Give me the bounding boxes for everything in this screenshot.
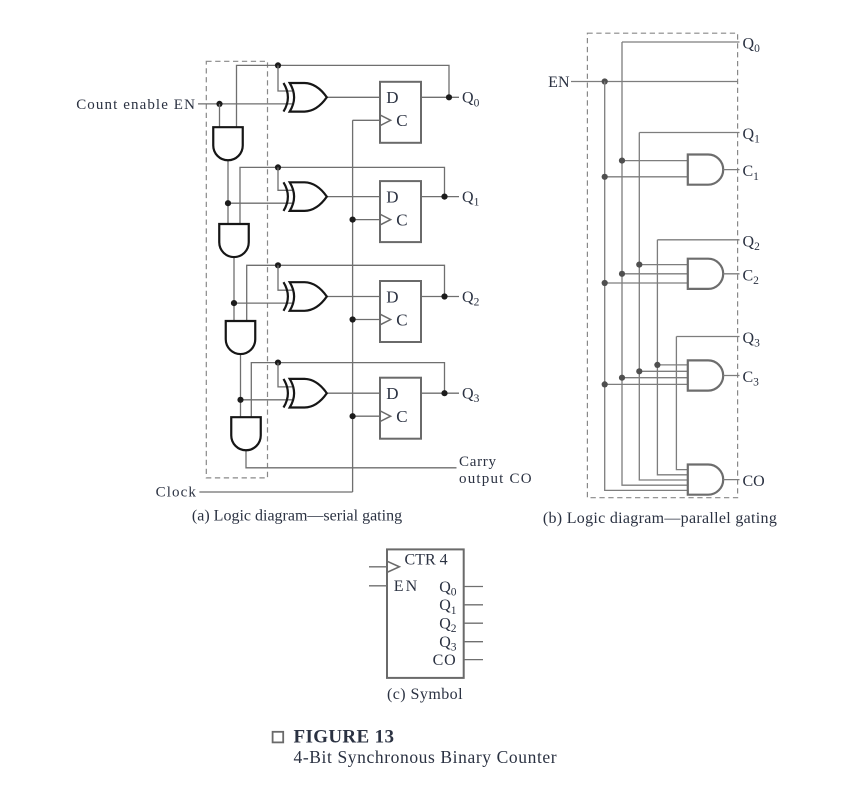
junction: feedback branch to XOR4	[275, 360, 281, 366]
junction: EN branch node	[216, 101, 222, 107]
junction: AND2 output node	[231, 300, 237, 306]
junction: feedback branch to XOR1	[275, 62, 281, 68]
junction: C3 input tap	[636, 368, 642, 374]
svg-text:D: D	[386, 88, 398, 107]
svg-text:FIGURE 13: FIGURE 13	[294, 727, 395, 748]
svg-text:CO: CO	[743, 473, 765, 490]
wire: input to C2 from bus	[639, 264, 689, 266]
junction: Q0 output node	[446, 94, 452, 100]
svg-text:Q2: Q2	[462, 289, 480, 309]
wire: Q1 output (c)	[464, 604, 483, 606]
wire: Q1 output	[421, 196, 459, 198]
wire: XOR2 output to FF2 D	[327, 196, 380, 198]
wire: Clock input horizontal	[199, 491, 352, 493]
dashed box (a) serial-gating enclosure	[206, 61, 267, 478]
svg-text:Q1: Q1	[439, 597, 457, 617]
wire: C1 output	[723, 169, 739, 171]
wire: XOR1 output to FF1 D	[327, 96, 380, 98]
wire: Q0 output	[421, 96, 459, 98]
svg-text:Q2: Q2	[439, 616, 457, 636]
D flip-flop FF4	[380, 378, 421, 439]
D flip-flop FF1	[380, 82, 421, 143]
svg-text:D: D	[386, 187, 398, 206]
junction: C1 input tap	[619, 158, 625, 164]
wire: branch down to XOR2 top input	[278, 167, 292, 190]
wire: EN input (b)	[571, 81, 738, 83]
and gate G2 (serial)	[219, 224, 249, 257]
svg-text:Q3: Q3	[743, 330, 761, 350]
svg-text:Carry: Carry	[459, 454, 497, 470]
wire: Q1 feedback to AND2 right input	[240, 167, 445, 225]
junction: AND3 output node	[237, 397, 243, 403]
dashed box (b) parallel-gating enclosure	[587, 33, 737, 498]
junction: Q2 output node	[441, 293, 447, 299]
svg-text:4-Bit Synchronous Binary Count: 4-Bit Synchronous Binary Counter	[294, 747, 558, 767]
svg-text:C1: C1	[743, 163, 760, 183]
D flip-flop FF2	[380, 181, 421, 242]
wire: C2 output	[723, 273, 739, 275]
svg-text:(a) Logic diagram—serial gatin: (a) Logic diagram—serial gating	[192, 507, 402, 524]
junction: feedback branch to XOR3	[275, 262, 281, 268]
svg-text:Q0: Q0	[743, 36, 761, 56]
wire: Q3 output (b)	[676, 336, 739, 338]
and gate C2	[688, 259, 723, 289]
wire: clock vertical	[352, 120, 354, 492]
wire: input to C2 from bus	[605, 282, 689, 284]
wire: Q2 output	[421, 296, 459, 298]
svg-text:EN: EN	[548, 74, 570, 91]
wire: input to C1 from bus	[605, 176, 689, 178]
svg-text:C: C	[396, 111, 407, 130]
wire: Q0 output (b)	[622, 41, 740, 43]
wire: Q3 output (c)	[464, 641, 483, 643]
wire: input to C2 from bus	[622, 273, 689, 275]
wire: CO output	[723, 479, 739, 481]
wire: AND2 output chain	[233, 257, 235, 321]
xor gate X2	[284, 182, 327, 211]
svg-text:Q1: Q1	[462, 189, 480, 209]
junction: C2 input tap	[602, 280, 608, 286]
wire: input to C3 from bus	[622, 377, 689, 379]
wire: Q3 feedback to AND4 right input	[251, 363, 444, 419]
svg-text:D: D	[386, 287, 398, 306]
svg-text:Q3: Q3	[462, 386, 480, 406]
wire: EN down to AND1 left input	[219, 104, 221, 128]
wire: chain to XOR4 lower input	[241, 399, 293, 401]
svg-text:CTR 4: CTR 4	[405, 552, 448, 569]
wire: AND4 output to carry	[246, 450, 457, 468]
wire: clock feed FF3 C	[353, 319, 380, 321]
wire: Q0 feedback to AND1 right input	[237, 65, 450, 128]
counter symbol box U1	[387, 549, 464, 678]
clock triangle (c)	[387, 561, 399, 572]
wire: Q2 output (b)	[657, 239, 739, 241]
svg-text:C: C	[396, 210, 407, 229]
and gate C1	[688, 155, 723, 185]
svg-text:Q1: Q1	[743, 126, 761, 146]
junction: C3 input tap	[654, 362, 660, 368]
D flip-flop FF3	[380, 281, 421, 342]
wire: Q2 vertical bus	[657, 240, 688, 475]
svg-text:Q3: Q3	[439, 634, 457, 654]
junction: clock node FF4	[350, 413, 356, 419]
wire: EN input to XOR1	[198, 103, 292, 105]
wire: input to C1 from bus	[622, 160, 689, 162]
wire: clock feed FF4 C	[353, 415, 380, 417]
svg-text:C: C	[396, 407, 407, 426]
svg-text:Q0: Q0	[462, 90, 480, 110]
svg-text:(b) Logic diagram—parallel gat: (b) Logic diagram—parallel gating	[543, 510, 777, 527]
svg-text:Clock: Clock	[156, 484, 197, 500]
wire: Q3 vertical bus	[676, 337, 688, 470]
svg-text:CO: CO	[433, 652, 457, 669]
wire: clock input (c)	[369, 566, 387, 568]
wire: C3 output	[723, 375, 739, 377]
wire: input to C3 from bus	[657, 364, 688, 366]
wire: clock feed FF1 C	[353, 119, 380, 121]
junction: C2 input tap	[619, 271, 625, 277]
wire: EN vertical bus	[605, 82, 689, 491]
svg-text:EN: EN	[394, 578, 420, 595]
and gate G1 (serial)	[213, 127, 243, 160]
and gate G3 (serial)	[226, 321, 256, 354]
wire: Q1 output (b)	[639, 132, 739, 134]
and gate C3	[688, 360, 723, 390]
junction: C3 input tap	[602, 381, 608, 387]
junction: clock node FF2	[350, 217, 356, 223]
xor gate X3	[284, 282, 327, 311]
wire: Q3 output	[421, 392, 459, 394]
wire: branch down to XOR3 top input	[278, 265, 292, 290]
svg-text:C2: C2	[743, 267, 760, 287]
junction: C3 input tap	[619, 375, 625, 381]
junction: EN node (b)	[602, 78, 608, 84]
xor gate X4	[284, 379, 327, 408]
wire: clock feed FF2 C	[353, 219, 380, 221]
figure bullet square	[273, 732, 284, 743]
wire: input to C3 from bus	[605, 383, 689, 385]
xor gate X1	[284, 83, 327, 112]
wire: Q0 vertical bus	[622, 42, 689, 485]
svg-text:C: C	[396, 310, 407, 329]
wire: chain to XOR2 lower input	[228, 202, 292, 204]
svg-text:C3: C3	[743, 369, 760, 389]
junction: C2 input tap	[636, 262, 642, 268]
wire: Q1 vertical bus	[639, 133, 689, 481]
wire: chain to XOR3 lower input	[234, 302, 292, 304]
junction: feedback branch to XOR2	[275, 164, 281, 170]
wire: Q2 output (c)	[464, 622, 483, 624]
svg-text:(c) Symbol: (c) Symbol	[387, 686, 463, 703]
junction: AND1 output node	[225, 200, 231, 206]
svg-text:Q2: Q2	[743, 233, 761, 253]
wire: EN input (c)	[369, 585, 387, 587]
wire: Q2 feedback to AND3 right input	[247, 265, 445, 322]
wire: input to C3 from bus	[639, 370, 689, 372]
wire: AND3 output chain	[240, 354, 242, 417]
wire: Q0 output (c)	[464, 586, 483, 588]
junction: Q3 output node	[441, 390, 447, 396]
svg-text:Q0: Q0	[439, 579, 457, 599]
wire: XOR3 output to FF3 D	[327, 296, 380, 298]
junction: Q1 output node	[441, 194, 447, 200]
and gate CO	[688, 465, 723, 495]
svg-text:Count enable EN: Count enable EN	[76, 97, 196, 113]
wire: CO output (c)	[464, 659, 483, 661]
wire: XOR4 output to FF4 D	[327, 392, 380, 394]
svg-text:D: D	[386, 384, 398, 403]
junction: C1 input tap	[602, 174, 608, 180]
svg-text:output CO: output CO	[459, 471, 533, 487]
wire: branch down to XOR4 top input	[278, 363, 292, 387]
and gate G4 (serial)	[231, 417, 261, 450]
junction: clock node FF3	[350, 316, 356, 322]
wire: branch down to XOR1 top input	[278, 65, 292, 91]
wire: AND1 output chain	[227, 160, 229, 224]
